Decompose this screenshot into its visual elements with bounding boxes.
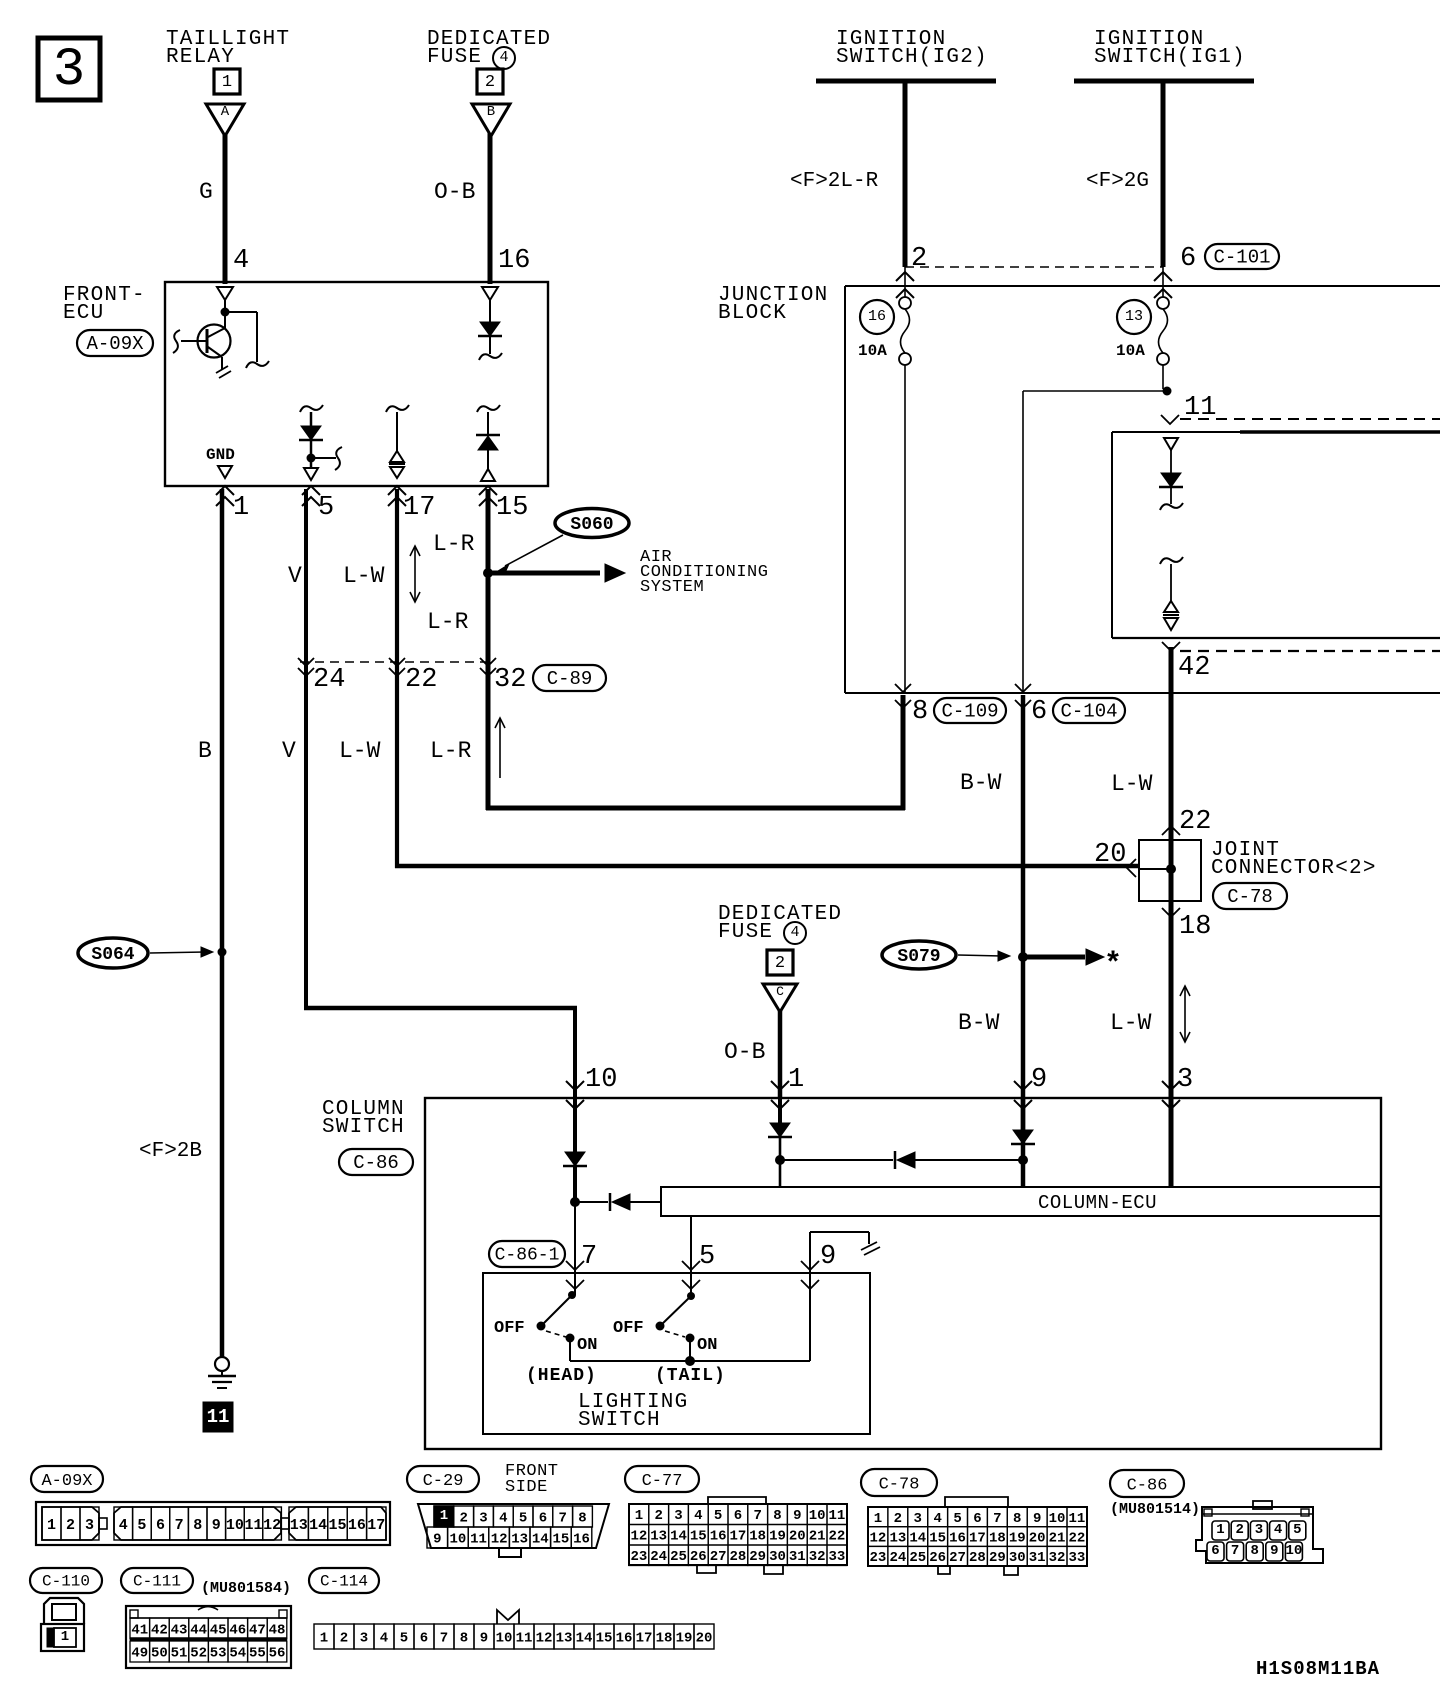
connector label C-101 [1205, 244, 1279, 269]
svg-text:15: 15 [596, 1630, 613, 1646]
svg-text:13: 13 [650, 1529, 667, 1545]
svg-text:A: A [221, 104, 230, 120]
svg-text:15: 15 [552, 1531, 569, 1547]
svg-text:G: G [199, 179, 213, 205]
wire (F)2L-R [903, 81, 908, 267]
pin number 7 [581, 1242, 597, 1272]
svg-text:56: 56 [269, 1645, 286, 1661]
wire colour label B-W (lower) [958, 1010, 1000, 1036]
joint connector internal wire [1139, 868, 1171, 870]
svg-text:29: 29 [989, 1550, 1006, 1566]
svg-text:14: 14 [909, 1531, 926, 1547]
pin6 chevrons [1154, 272, 1172, 298]
connector triangle A [206, 104, 244, 136]
svg-text:5: 5 [714, 1508, 722, 1524]
column switch box [425, 1098, 1381, 1449]
svg-text:32: 32 [494, 665, 526, 695]
svg-text:12: 12 [263, 1517, 281, 1534]
svg-text:18: 18 [749, 1529, 766, 1545]
svg-text:16: 16 [868, 308, 886, 325]
svg-text:L-W: L-W [1111, 771, 1153, 797]
svg-text:24: 24 [650, 1549, 667, 1565]
svg-text:15: 15 [929, 1531, 946, 1547]
pin 42 chevron [1162, 642, 1180, 651]
svg-text:SYSTEM: SYSTEM [640, 578, 704, 597]
label (TAIL) [655, 1366, 726, 1386]
svg-text:46: 46 [229, 1622, 246, 1638]
direction arrow (double, pin15) [410, 546, 420, 602]
svg-text:16: 16 [710, 1529, 727, 1545]
svg-text:8: 8 [193, 1517, 202, 1534]
svg-text:B: B [198, 738, 212, 764]
label ON (tail) [697, 1336, 717, 1355]
pin number 22 (joint) [1179, 807, 1211, 837]
wire colour label B [198, 738, 212, 764]
C-86-1 chevrons pin7 [566, 1261, 584, 1289]
node pin1 branch [775, 1155, 785, 1165]
svg-text:52: 52 [190, 1645, 207, 1661]
svg-text:20: 20 [1094, 840, 1126, 870]
svg-text:L-W: L-W [339, 738, 381, 764]
connector label C-86 (bottom) [1110, 1470, 1184, 1497]
svg-text:3: 3 [1255, 1522, 1263, 1538]
label JUNCTION BLOCK [718, 284, 828, 325]
pin number 16 [498, 246, 530, 276]
svg-text:19: 19 [1009, 1531, 1026, 1547]
svg-text:4: 4 [1274, 1522, 1282, 1538]
svg-text:1: 1 [222, 73, 232, 92]
connector C-114 pin diagram [314, 1610, 714, 1649]
pin number 10 [585, 1065, 617, 1095]
svg-text:5: 5 [519, 1510, 527, 1526]
svg-text:1: 1 [61, 1629, 69, 1645]
pin number 11 [1184, 393, 1216, 423]
svg-text:1: 1 [47, 1517, 56, 1534]
svg-text:17: 17 [636, 1630, 653, 1646]
svg-text:11: 11 [1069, 1511, 1086, 1527]
svg-text:5: 5 [699, 1242, 715, 1272]
svg-text:10: 10 [809, 1508, 826, 1524]
label IGNITION SWITCH(IG1) [1094, 28, 1246, 69]
svg-text:2: 2 [894, 1511, 902, 1527]
svg-text:7: 7 [1231, 1543, 1239, 1559]
svg-text:C-104: C-104 [1060, 701, 1117, 723]
svg-text:21: 21 [1049, 1531, 1066, 1547]
svg-text:10: 10 [1049, 1511, 1066, 1527]
wire L-W pin17 to joint connector pin20 [395, 489, 1139, 868]
svg-text:10: 10 [1285, 1543, 1302, 1559]
pin 6 chevrons (C-104) [1015, 684, 1031, 708]
svg-text:12: 12 [536, 1630, 553, 1646]
wire colour label L-W (upper) [343, 563, 385, 589]
svg-text:9: 9 [480, 1630, 488, 1646]
pin number 24 [313, 665, 345, 695]
svg-text:24: 24 [313, 665, 345, 695]
svg-text:3: 3 [1177, 1065, 1193, 1095]
diode D1 (pin16) [478, 322, 502, 360]
svg-text:4: 4 [233, 246, 249, 276]
wire colour label L-R (lower) [430, 738, 472, 764]
lighting switch TAIL contact [656, 1292, 696, 1361]
wire O-B (fuse to column switch pin1) [778, 1009, 783, 1098]
svg-text:28: 28 [729, 1549, 746, 1565]
svg-text:BLOCK: BLOCK [718, 302, 787, 325]
connector label C-89 [533, 665, 606, 691]
wire pin16 to diode [489, 300, 491, 322]
svg-text:B: B [487, 104, 495, 120]
svg-text:28: 28 [969, 1550, 986, 1566]
wire colour label L-R (middle) [427, 609, 469, 635]
svg-text:3: 3 [479, 1510, 487, 1526]
svg-text:16: 16 [616, 1630, 633, 1646]
svg-text:45: 45 [210, 1622, 227, 1638]
svg-text:S060: S060 [570, 515, 613, 535]
wire colour label L-R (upper) [433, 531, 475, 557]
pin9 chevrons (lighting) [801, 1261, 819, 1289]
svg-text:10: 10 [226, 1517, 244, 1534]
svg-text:A-09X: A-09X [41, 1472, 92, 1491]
ECU pin4 entry triangle [217, 287, 233, 300]
node base junction [221, 308, 230, 317]
svg-text:OFF: OFF [613, 1319, 644, 1338]
svg-text:3: 3 [53, 40, 85, 101]
connector dashed line at pin42 [1180, 650, 1440, 652]
svg-text:2: 2 [340, 1630, 348, 1646]
pin 8 chevrons [895, 684, 911, 708]
connector C-101 dashed line [905, 266, 1163, 268]
svg-text:L-W: L-W [343, 563, 385, 589]
wire B pin1 to ground [220, 489, 225, 1357]
svg-text:1: 1 [233, 493, 249, 523]
svg-text:48: 48 [269, 1622, 286, 1638]
svg-text:20: 20 [1029, 1531, 1046, 1547]
pin 22 chevron [1162, 826, 1180, 835]
svg-text:C-77: C-77 [642, 1472, 683, 1491]
drawing number H1S08M11BA [1256, 1658, 1380, 1680]
svg-text:SWITCH(IG2): SWITCH(IG2) [836, 46, 988, 69]
svg-text:C-114: C-114 [320, 1573, 368, 1591]
entry chevron pin20 [1127, 859, 1136, 877]
svg-text:14: 14 [576, 1630, 593, 1646]
svg-text:6: 6 [973, 1511, 981, 1527]
pin number 6 (C-104) [1031, 697, 1047, 727]
wire colour label L-W (pin18) [1110, 1010, 1152, 1036]
svg-text:42: 42 [1178, 653, 1210, 683]
svg-text:8: 8 [1013, 1511, 1021, 1527]
svg-text:C: C [776, 984, 784, 999]
svg-text:23: 23 [630, 1549, 647, 1565]
svg-text:1: 1 [440, 1508, 448, 1524]
svg-text:8: 8 [578, 1510, 586, 1526]
svg-text:8: 8 [773, 1508, 781, 1524]
svg-text:9: 9 [433, 1531, 441, 1547]
svg-text:C-86-1: C-86-1 [495, 1246, 560, 1266]
node below fuse13 [1163, 387, 1172, 396]
svg-text:10: 10 [496, 1630, 513, 1646]
ground G11 [203, 1357, 236, 1432]
page number 3 box [38, 38, 100, 101]
column-ECU box [661, 1187, 1381, 1216]
svg-text:27: 27 [710, 1549, 727, 1565]
svg-text:3: 3 [360, 1630, 368, 1646]
node pin9 branch [1018, 1155, 1028, 1165]
pin number 22 [405, 665, 437, 695]
label FRONT SIDE [505, 1462, 559, 1497]
joint connector internal node [1166, 864, 1176, 874]
label JOINT CONNECTOR (2) [1211, 839, 1377, 880]
label LIGHTING SWITCH [578, 1391, 688, 1432]
svg-text:B-W: B-W [960, 770, 1002, 796]
svg-text:32: 32 [809, 1549, 826, 1565]
svg-text:7: 7 [440, 1630, 448, 1646]
fuse 16 (10A) [858, 297, 911, 365]
svg-text:7: 7 [753, 1508, 761, 1524]
connector label C-78 (bottom) [861, 1469, 937, 1496]
svg-text:15: 15 [328, 1517, 346, 1534]
svg-text:S079: S079 [897, 947, 940, 967]
svg-text:26: 26 [690, 1549, 707, 1565]
connector label C-111 [121, 1568, 193, 1593]
svg-text:3: 3 [914, 1511, 922, 1527]
pin number 32 [494, 665, 526, 695]
label TAILLIGHT RELAY [166, 28, 290, 69]
svg-text:10A: 10A [1116, 342, 1145, 360]
wire colour label B-W (upper) [960, 770, 1002, 796]
svg-text:24: 24 [889, 1550, 906, 1566]
wire label (F)2G [1086, 170, 1149, 193]
pin number 8 [912, 697, 928, 727]
wire O-B (dedicated fuse to Front-ECU pin16) [488, 133, 493, 284]
svg-text:L-R: L-R [430, 738, 472, 764]
connector label C-109 [934, 698, 1006, 723]
svg-text:SWITCH: SWITCH [578, 1409, 661, 1432]
svg-text:3: 3 [85, 1517, 94, 1534]
svg-text:8: 8 [912, 697, 928, 727]
svg-text:B-W: B-W [958, 1010, 1000, 1036]
pin 18 chevron [1162, 908, 1180, 917]
svg-text:V: V [282, 738, 296, 764]
svg-text:10A: 10A [858, 342, 887, 360]
node pin10 branch [570, 1197, 580, 1207]
pin number 2 [911, 244, 927, 274]
connector A-09X pin diagram [36, 1502, 390, 1545]
Front-ECU box [165, 282, 548, 486]
svg-text:31: 31 [789, 1549, 806, 1565]
connector label C-104 [1053, 698, 1125, 723]
label OFF (tail) [613, 1319, 644, 1338]
C-89 crossing chevrons x=488 [480, 658, 496, 676]
svg-text:7: 7 [581, 1242, 597, 1272]
svg-text:32: 32 [1049, 1550, 1066, 1566]
svg-text:C-109: C-109 [941, 701, 998, 723]
svg-text:12: 12 [630, 1529, 647, 1545]
wire G (taillight relay to Front-ECU pin4) [223, 133, 228, 284]
svg-text:29: 29 [749, 1549, 766, 1565]
svg-text:SWITCH(IG1): SWITCH(IG1) [1094, 46, 1246, 69]
svg-text:C-78: C-78 [1227, 886, 1273, 908]
svg-text:4: 4 [694, 1508, 702, 1524]
svg-text:33: 33 [1069, 1550, 1086, 1566]
splice S064 [78, 938, 213, 968]
svg-text:11: 11 [244, 1517, 262, 1534]
wire pin10 node to lighting switch pin7 [574, 1202, 576, 1295]
svg-text:C-29: C-29 [423, 1472, 464, 1491]
svg-text:(MU801584): (MU801584) [201, 1580, 291, 1597]
connector label C-114 [309, 1568, 379, 1593]
label COLUMN SWITCH [322, 1098, 405, 1139]
svg-text:5: 5 [318, 493, 334, 523]
label IGNITION SWITCH(IG2) [836, 28, 988, 69]
svg-text:16: 16 [573, 1531, 590, 1547]
connector label A-09X (bottom) [31, 1466, 103, 1492]
label MU801584 [201, 1580, 291, 1597]
svg-text:20: 20 [789, 1529, 806, 1545]
svg-text:9: 9 [212, 1517, 221, 1534]
pin number 1 (column switch) [788, 1065, 804, 1095]
svg-text:17: 17 [969, 1531, 986, 1547]
svg-text:19: 19 [676, 1630, 693, 1646]
svg-text:7: 7 [175, 1517, 184, 1534]
svg-text:C-110: C-110 [42, 1573, 90, 1591]
svg-text:2: 2 [654, 1508, 662, 1524]
svg-text:7: 7 [993, 1511, 1001, 1527]
svg-text:C-101: C-101 [1213, 247, 1270, 269]
svg-text:2: 2 [485, 73, 495, 92]
relay box (in junction block) [1112, 432, 1440, 638]
wire colour label L-W (lower) [339, 738, 381, 764]
svg-text:22: 22 [1069, 1531, 1086, 1547]
svg-text:11: 11 [470, 1531, 487, 1547]
svg-text:17: 17 [367, 1517, 385, 1534]
svg-text:5: 5 [400, 1630, 408, 1646]
wire pin2 to fuse16 [904, 267, 906, 297]
wire L-W pin42 to column-ECU pin3 [1169, 647, 1174, 1188]
ECU pin 15 [479, 486, 528, 523]
ECU pin 1 [216, 486, 249, 523]
svg-text:10: 10 [585, 1065, 617, 1095]
svg-text:6: 6 [1211, 1543, 1219, 1559]
svg-text:11: 11 [516, 1630, 533, 1646]
svg-text:43: 43 [171, 1622, 188, 1638]
pin number 4 [233, 246, 249, 276]
connector dashed line at pin11 [1180, 418, 1440, 420]
pin2 chevrons [896, 272, 914, 298]
lighting switch box [483, 1273, 870, 1434]
svg-text:14: 14 [670, 1529, 687, 1545]
lighting switch output wire [570, 1360, 810, 1362]
connector label C-86 [339, 1149, 413, 1175]
wire to column-ECU (head request) [575, 1193, 661, 1211]
svg-text:4: 4 [790, 924, 799, 941]
svg-text:4: 4 [499, 1510, 507, 1526]
wire colour label V (lower) [282, 738, 296, 764]
svg-text:1: 1 [788, 1065, 804, 1095]
svg-text:<F>2G: <F>2G [1086, 170, 1149, 193]
svg-text:C-86: C-86 [353, 1152, 399, 1174]
svg-text:53: 53 [210, 1645, 227, 1661]
wire column-ECU to lighting switch pin5 [690, 1216, 692, 1297]
tag box 1 [214, 69, 240, 94]
connector C-86 pin diagram [1196, 1501, 1323, 1563]
svg-text:11: 11 [828, 1508, 845, 1524]
svg-text:ON: ON [697, 1336, 717, 1355]
svg-text:30: 30 [769, 1549, 786, 1565]
svg-text:O-B: O-B [434, 179, 475, 205]
svg-text:RELAY: RELAY [166, 46, 235, 69]
svg-text:14: 14 [532, 1531, 549, 1547]
wire column-ECU pin7 link (C-86-1) [489, 1241, 565, 1267]
fuse 13 (10A) [1116, 297, 1169, 365]
label OFF (head) [494, 1319, 525, 1338]
svg-text:12: 12 [491, 1531, 508, 1547]
svg-text:1: 1 [320, 1630, 328, 1646]
C-89 crossing chevrons x=397 [389, 658, 405, 676]
svg-text:9: 9 [1270, 1543, 1278, 1559]
svg-text:15: 15 [496, 493, 528, 523]
wire (F)2G [1161, 81, 1166, 267]
node lighting output [685, 1356, 695, 1366]
wire pin4 to transistor [224, 300, 226, 313]
connector label A-09X [77, 330, 153, 356]
connector label C-29 [407, 1466, 479, 1492]
connector C-77 pin diagram [629, 1497, 847, 1574]
transistor Q (taillight driver) [173, 313, 231, 378]
wire colour label V (upper) [288, 563, 302, 589]
svg-text:<F>2B: <F>2B [139, 1140, 202, 1163]
svg-text:17: 17 [403, 493, 435, 523]
wire pin6 to fuse13 [1162, 267, 1164, 297]
svg-text:6: 6 [420, 1630, 428, 1646]
svg-text:1: 1 [874, 1511, 882, 1527]
svg-text:ON: ON [577, 1336, 597, 1355]
label ON (head) [577, 1336, 597, 1355]
svg-text:2: 2 [775, 954, 785, 973]
pin9 chevrons [1014, 1081, 1032, 1109]
svg-text:2: 2 [459, 1510, 467, 1526]
svg-text:(HEAD): (HEAD) [526, 1366, 597, 1386]
pin5 chevrons (lighting) [682, 1261, 700, 1289]
svg-text:22: 22 [405, 665, 437, 695]
wire column-ECU pin9 with stub [810, 1232, 880, 1361]
svg-text:2: 2 [1235, 1522, 1243, 1538]
wire colour label L-W (pin42) [1111, 771, 1153, 797]
svg-text:30: 30 [1009, 1550, 1026, 1566]
svg-text:A-09X: A-09X [86, 333, 144, 355]
svg-text:27: 27 [949, 1550, 966, 1566]
svg-text:1: 1 [635, 1508, 643, 1524]
svg-text:6: 6 [734, 1508, 742, 1524]
connector triangle C [763, 984, 797, 1012]
branch wire to pin6 [1023, 391, 1167, 693]
svg-text:33: 33 [828, 1549, 845, 1565]
svg-text:5: 5 [137, 1517, 146, 1534]
diode D7 (tail feed) [780, 1151, 1023, 1169]
svg-text:7: 7 [558, 1510, 566, 1526]
svg-text:49: 49 [131, 1645, 148, 1661]
pin number 20 [1094, 840, 1126, 870]
wire B-W pin6 to column switch pin9 [1021, 695, 1026, 1188]
wire to diode [1170, 450, 1172, 473]
svg-text:CONNECTOR<2>: CONNECTOR<2> [1211, 857, 1377, 880]
ECU pin 17 [388, 486, 435, 523]
relay box lower contact [1160, 557, 1183, 630]
svg-text:18: 18 [1179, 912, 1211, 942]
connector label C-77 [625, 1466, 699, 1492]
ECU pin16 entry triangle [482, 287, 498, 300]
svg-text:22: 22 [828, 1529, 845, 1545]
label AIR CONDITIONING SYSTEM [640, 548, 768, 597]
svg-text:17: 17 [729, 1529, 746, 1545]
